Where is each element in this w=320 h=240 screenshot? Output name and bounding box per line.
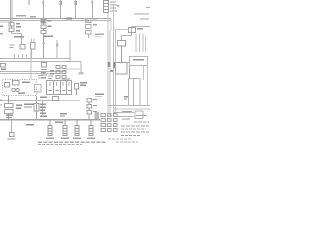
label wire tag (14, 36, 24, 37)
lamp assembly row (20, 43, 35, 59)
label J1 cells (49, 90, 72, 91)
wire pin tick 2 (60, 1, 62, 5)
node right bus (109, 105, 150, 107)
wire switch drop 1 (43, 0, 45, 19)
wire right edge drop (147, 66, 149, 106)
overload protector OL1 (5, 81, 20, 88)
label M1 (18, 82, 30, 94)
wire pin tick 4 (91, 1, 93, 4)
wire switch drop 4 (92, 0, 94, 19)
switch S4 (42, 101, 44, 115)
node bus ticks (15, 54, 27, 59)
label lamp row (10, 45, 15, 49)
node splice V1 (107, 62, 110, 67)
wire vertical V1b (110, 19, 112, 31)
wire lower bus 2 (0, 73, 66, 75)
wire K1 out (12, 34, 22, 45)
connector block J1 (47, 81, 72, 95)
legend lower rows (108, 139, 138, 142)
label left margin rows (0, 33, 3, 120)
wire drop b (56, 40, 58, 59)
wire switch drop 3 (75, 0, 77, 19)
wire pin stub (28, 0, 30, 5)
label lamp L2 (8, 138, 16, 139)
label E3 (73, 138, 81, 139)
label J2 (111, 70, 114, 72)
wire lamp drop (11, 120, 13, 132)
label DT1 (16, 104, 34, 109)
node tick marks (43, 43, 59, 47)
label E4 (87, 138, 95, 139)
wire run bus faint (60, 100, 80, 102)
node mid bus B (0, 61, 81, 63)
wire jog to connector (66, 62, 81, 74)
wire right link 1 (113, 112, 134, 114)
sensor chain ladder (87, 99, 92, 120)
wire main vertical V1 (108, 13, 110, 118)
connector P1 (79, 72, 84, 75)
terminal T1 left (1, 64, 6, 68)
label sensor pins (93, 99, 97, 112)
label K1 (0, 23, 21, 31)
label sensor chain (95, 94, 104, 97)
label heater note (55, 122, 63, 123)
label legend header (122, 111, 147, 120)
wire L1 supply drop (11, 0, 13, 26)
caption text band (38, 142, 106, 144)
label lamp (26, 124, 34, 125)
node mid bus A (0, 58, 70, 60)
node bottom bus (0, 119, 100, 121)
heater E4 (89, 120, 93, 136)
switch S2 stack (41, 20, 46, 59)
junction box J2 (116, 63, 128, 75)
thermostat TH1 (129, 28, 136, 33)
label T1 (1, 69, 6, 70)
node splice V2 (113, 62, 116, 68)
wire ladder drop (143, 66, 145, 81)
label S4 stack (6, 104, 67, 119)
control board box (129, 79, 141, 106)
thermostat TH2 (34, 96, 39, 119)
label board (124, 96, 128, 99)
label E2 (61, 138, 69, 139)
terminal strip TS2 (101, 114, 111, 132)
relay K2 block (86, 19, 92, 39)
motor M1 windings (12, 88, 19, 91)
terminal strip TS1 (56, 66, 66, 79)
relay K3 stack (42, 63, 47, 68)
label J1 pins (62, 78, 70, 79)
wire top right stub (146, 7, 150, 9)
label K5 marks (38, 75, 43, 79)
node S2 core (42, 20, 46, 23)
switch S3 door (118, 41, 130, 79)
label above J1 (48, 76, 53, 79)
relay K1 contact stack (9, 23, 14, 34)
node run bus (0, 100, 60, 102)
defrost timer DT1 (5, 96, 14, 120)
lamp L2 (10, 133, 15, 137)
wire main vertical V2 (114, 4, 116, 117)
wire compressor feed (30, 51, 32, 80)
wire lamp row pins (32, 39, 35, 43)
label K2 (93, 18, 104, 37)
heater E1 (48, 120, 52, 136)
wire switch drop 2 (60, 0, 62, 19)
wire pin tick 3 (75, 1, 77, 5)
connector blob C2 (95, 112, 100, 119)
wire neutral stub (0, 21, 12, 23)
wire right feed (115, 27, 151, 41)
label E1 (46, 138, 54, 139)
compressor box dashed (3, 80, 37, 96)
wire pin tick 1 (42, 1, 44, 4)
label TS1 (50, 70, 54, 74)
label cap text (133, 59, 144, 60)
capacitor block box (130, 57, 148, 66)
legend text block (121, 122, 149, 136)
label S2 (43, 20, 53, 37)
capacitor C1 (75, 84, 79, 96)
label TH1 (137, 28, 143, 29)
label note right (80, 82, 87, 86)
node top bus (0, 18, 111, 20)
label J1 tag (40, 97, 47, 98)
wire right link 2 (113, 116, 134, 118)
wire second bus stub (0, 20, 111, 22)
terminal strip TS3 (114, 114, 118, 132)
label title notes (134, 13, 149, 19)
node lower bus (0, 71, 66, 73)
label bus text (16, 15, 72, 19)
relay box K5 (35, 85, 42, 93)
heater E3 (75, 120, 79, 136)
relay box legend (135, 111, 143, 119)
heater ladder R1 (136, 34, 146, 53)
switch S1 timer block (104, 1, 109, 13)
relay K4 (53, 97, 59, 101)
wire drop c (69, 40, 71, 62)
wire J1 cell pins (50, 82, 69, 86)
heater E2 (63, 120, 67, 136)
label S1 pins (110, 2, 119, 12)
